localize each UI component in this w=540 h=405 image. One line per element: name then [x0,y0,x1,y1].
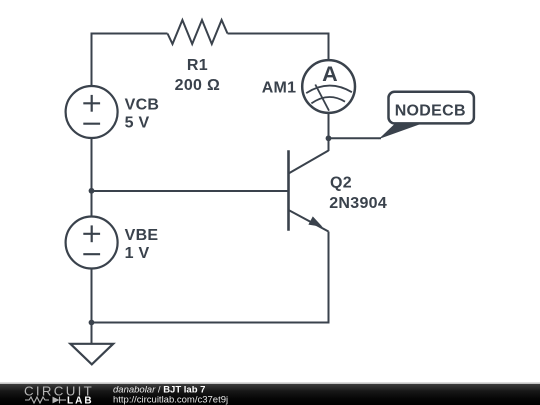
svg-text:VBE: VBE [125,227,159,244]
svg-text:1 V: 1 V [125,245,150,262]
svg-text:A: A [322,62,338,86]
svg-text:http://circuitlab.com/c37et9j: http://circuitlab.com/c37et9j [113,395,228,405]
svg-text:5 V: 5 V [125,115,150,132]
svg-text:Q2: Q2 [330,175,352,192]
svg-text:R1: R1 [187,57,208,74]
svg-text:2N3904: 2N3904 [329,195,387,212]
svg-text:NODECB: NODECB [395,103,466,120]
svg-text:LAB: LAB [67,396,94,405]
svg-text:VCB: VCB [125,97,160,114]
svg-text:200 Ω: 200 Ω [175,77,220,94]
svg-text:AM1: AM1 [262,80,297,97]
